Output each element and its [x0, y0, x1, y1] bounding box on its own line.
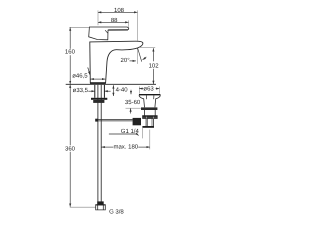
svg-text:20°: 20° [121, 57, 131, 64]
svg-text:ø46,5: ø46,5 [72, 73, 88, 80]
svg-text:108: 108 [114, 7, 125, 14]
svg-text:ø63: ø63 [143, 85, 154, 92]
svg-text:88: 88 [111, 17, 118, 24]
svg-text:G 3/8: G 3/8 [109, 208, 124, 215]
svg-text:160: 160 [65, 49, 76, 56]
svg-text:102: 102 [149, 62, 160, 69]
svg-text:max. 180: max. 180 [113, 144, 138, 151]
svg-text:4-40: 4-40 [116, 87, 129, 94]
svg-text:ø33,5: ø33,5 [73, 87, 89, 94]
svg-text:360: 360 [65, 145, 76, 152]
svg-text:G1 1/4: G1 1/4 [121, 128, 140, 135]
svg-text:35-60: 35-60 [125, 99, 141, 106]
